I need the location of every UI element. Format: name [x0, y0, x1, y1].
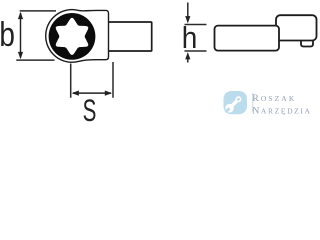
dim S extension lines [71, 62, 113, 98]
dim b arrowheads [18, 12, 23, 19]
svg-text:NARZĘDZIA: NARZĘDZIA [252, 105, 311, 116]
side view ring boss tab [301, 41, 313, 47]
dim S arrow line [73, 92, 111, 94]
wrench glyph [223, 94, 244, 115]
dim h arrow stems [187, 3, 189, 63]
svg-text:b: b [0, 14, 15, 54]
side view head plate [276, 15, 317, 40]
dim b extension lines [16, 11, 56, 60]
dim b arrow line [20, 13, 22, 58]
logo separator [252, 93, 253, 113]
side view shank in front [215, 26, 280, 51]
torx annulus (black ring with star hole) [49, 13, 96, 60]
ring head outer contour [46, 10, 109, 63]
logo icon tile [224, 91, 248, 114]
shank (front view) [109, 22, 152, 51]
dim h extension lines [185, 25, 207, 52]
svg-text:h: h [182, 22, 198, 55]
svg-text:ROSZAK: ROSZAK [252, 93, 296, 104]
svg-text:S: S [83, 93, 97, 128]
dim S arrowheads [72, 91, 79, 96]
dim h arrowheads [185, 16, 190, 23]
